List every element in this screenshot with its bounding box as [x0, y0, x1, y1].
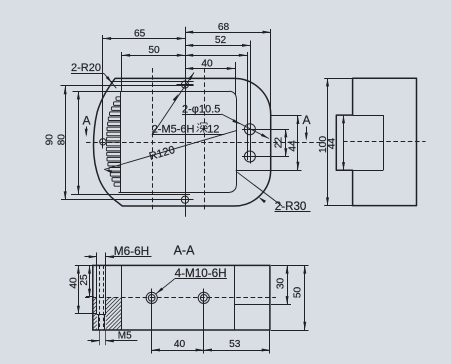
svg-text:2-φ10.5: 2-φ10.5	[182, 103, 220, 115]
svg-text:90: 90	[44, 134, 55, 146]
svg-text:2-R30: 2-R30	[275, 200, 307, 213]
svg-text:2-R20: 2-R20	[71, 62, 101, 74]
svg-text:M6-6H: M6-6H	[114, 244, 149, 258]
svg-text:A: A	[82, 114, 90, 128]
svg-text:65: 65	[134, 28, 146, 39]
svg-text:22: 22	[273, 137, 284, 149]
svg-text:A: A	[302, 113, 310, 127]
svg-text:50: 50	[148, 45, 160, 56]
svg-text:80: 80	[57, 134, 68, 146]
svg-text:44: 44	[287, 140, 298, 152]
svg-text:40: 40	[201, 58, 213, 69]
svg-text:40: 40	[174, 339, 186, 350]
svg-text:A-A: A-A	[174, 244, 196, 258]
svg-text:68: 68	[218, 22, 230, 33]
svg-text:52: 52	[215, 35, 227, 46]
svg-text:30: 30	[275, 278, 286, 290]
svg-text:44: 44	[327, 138, 338, 150]
svg-text:53: 53	[229, 339, 241, 350]
svg-text:50: 50	[293, 287, 304, 299]
svg-text:M5: M5	[118, 331, 132, 342]
svg-text:12: 12	[207, 124, 219, 136]
svg-text:25: 25	[79, 274, 90, 286]
